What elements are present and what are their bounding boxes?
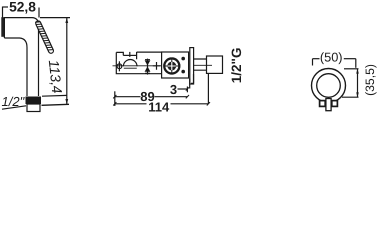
dimension 3 leader — [178, 88, 188, 90]
dimension 3 extension flange — [189, 79, 191, 89]
label 1/2" — [2, 94, 26, 109]
valve body top dip — [123, 54, 136, 56]
knob knurl ticks — [163, 57, 180, 75]
dimension 114 right extension — [207, 74, 209, 104]
svg-text:3: 3 — [170, 82, 177, 97]
knurled knob outer ring — [164, 58, 179, 73]
svg-text:114: 114 — [148, 99, 170, 114]
handle housing block — [162, 52, 189, 78]
dimension 89 right tick — [186, 87, 188, 93]
dimension (35,5) top extension — [344, 68, 359, 70]
knob screw cross slots — [168, 62, 176, 70]
dimension (50) text — [320, 49, 343, 64]
inlet port vertical tick — [118, 61, 120, 71]
svg-text:(50): (50) — [320, 49, 343, 64]
dimension 89 line — [115, 96, 188, 98]
dimension 113,4 line — [66, 18, 68, 105]
dimension (50) line left — [313, 58, 320, 60]
bottom fitting stem — [326, 99, 331, 111]
svg-text:(35,5): (35,5) — [363, 64, 377, 96]
dimension 52,8 text — [9, 0, 36, 14]
screw dot top — [181, 57, 185, 61]
dimension left extension line — [114, 91, 116, 106]
dimension oblique slashes — [113, 87, 210, 105]
valve body outline — [116, 52, 161, 73]
sprayer head bottom and handle left edge — [4, 38, 27, 96]
cross mark — [153, 62, 161, 70]
dimension 113,4 top arrow — [65, 18, 68, 23]
label 1/2"G — [229, 48, 244, 84]
dimension (50) right leg — [355, 59, 357, 68]
valve body boss left — [116, 52, 123, 55]
svg-text:1/2"G: 1/2"G — [229, 48, 244, 84]
outlet thread block — [207, 56, 223, 73]
dome (cartridge cap) — [123, 60, 137, 67]
bottom fitting right lug — [332, 101, 338, 107]
valve centerline — [113, 65, 162, 67]
dimension (35,5) top arrow — [356, 69, 359, 74]
dimension (50) left leg — [312, 59, 314, 66]
dimension 52,8 line left dash — [3, 6, 9, 8]
dimension (35,5) bottom extension — [342, 96, 359, 98]
outlet pipe narrow section — [194, 59, 207, 70]
dimension 114 text — [148, 99, 170, 114]
dome base line — [124, 67, 137, 69]
dimension 113,4 bottom extension line — [42, 94, 67, 97]
wall flange — [190, 48, 194, 84]
valve centerline through outlet — [194, 64, 213, 66]
dimension 113,4 top extension line — [40, 17, 70, 19]
knob screw disc — [167, 62, 176, 71]
dimension 113,4 text — [45, 59, 64, 94]
sprayer head outline — [4, 18, 38, 96]
dimension 113,4 bottom foot dash — [42, 104, 70, 105]
screw dot bottom — [181, 70, 185, 74]
dimension 3 text — [170, 82, 177, 97]
dimension (35,5) bottom arrow — [356, 92, 359, 97]
flange right extension with foot — [191, 74, 194, 83]
escutcheon inner circle — [317, 74, 341, 98]
hose nut (dark) — [26, 97, 42, 105]
dimension 89 text — [140, 89, 154, 104]
dimension 113,4 bottom arrow — [65, 99, 68, 105]
flow marker arrows — [145, 59, 151, 75]
escutcheon outer circle — [312, 69, 346, 103]
hose connector lower body — [27, 104, 40, 112]
valve body slot stub — [129, 52, 131, 57]
bottom fitting left lug — [320, 101, 326, 107]
dimension (35,5) text — [363, 64, 377, 96]
valve body top edge — [137, 52, 162, 59]
svg-text:52,8: 52,8 — [9, 0, 36, 14]
leader line for 1/2" — [2, 106, 26, 109]
dimension 52,8 right extension tick — [38, 8, 40, 18]
knob crosshair — [163, 58, 180, 75]
dimension 52,8 left extension tick — [2, 7, 4, 18]
inlet port circle — [117, 64, 122, 69]
dimension 114 line — [115, 103, 209, 105]
sprayer nozzle face — [1, 17, 4, 37]
trigger lever (hatched) — [35, 20, 54, 54]
dimension (35,5) line — [357, 69, 359, 97]
dimension (50) line right — [344, 58, 356, 60]
